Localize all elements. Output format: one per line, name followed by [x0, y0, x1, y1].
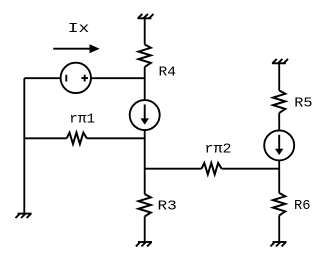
- wire: current source bottom down to rpi2 node and R3: [144, 130, 146, 194]
- wire: R3 bottom to ground: [144, 217, 146, 243]
- resistor R6: [273, 193, 285, 215]
- current direction arrow for Ix: [53, 44, 99, 53]
- wire: right lead of voltage source (circle to center column): [91, 77, 145, 79]
- wire: current source bottom to node and R6: [278, 160, 280, 193]
- power symbol above R4: [137, 14, 153, 18]
- resistor R5: [273, 91, 285, 113]
- voltage source V1 (|-, + inside circle): [61, 63, 91, 93]
- wire: left lead of rpi1: [24, 137, 66, 139]
- power symbol above R5: [272, 59, 288, 63]
- wire: left column vertical: [23, 78, 25, 213]
- ground (bottom center): [136, 242, 152, 246]
- resistor R3: [139, 194, 151, 216]
- resistor rpi2: [202, 163, 222, 174]
- resistor R4: [139, 45, 151, 67]
- wire: center column to rpi2 left: [145, 168, 202, 170]
- current source I2 (right column): [264, 130, 294, 160]
- wire: left lead of voltage source (node A to circle): [24, 77, 60, 79]
- svg-text:R3: R3: [158, 199, 177, 214]
- wire: right lead of rpi1 to center column: [87, 137, 145, 139]
- wire: R5 bottom to current source top: [278, 113, 280, 130]
- wire: R4 bottom through node to current source top: [144, 67, 146, 100]
- wire: power to R4 top: [144, 18, 146, 44]
- wire: rpi2 right to right column: [222, 168, 280, 170]
- svg-text:Ix: Ix: [68, 22, 90, 37]
- svg-text:R6: R6: [294, 199, 311, 214]
- wire: R6 bottom to ground: [278, 215, 280, 242]
- current source I1 (center column): [130, 100, 160, 130]
- svg-text:R5: R5: [294, 97, 312, 112]
- svg-text:rπ1: rπ1: [69, 112, 95, 127]
- ground (bottom right): [270, 242, 286, 246]
- svg-text:R4: R4: [159, 66, 177, 81]
- ground (bottom left): [15, 214, 31, 218]
- resistor rpi1: [67, 133, 87, 144]
- svg-text:rπ2: rπ2: [205, 142, 232, 157]
- wire: power to R5 top: [278, 63, 280, 90]
